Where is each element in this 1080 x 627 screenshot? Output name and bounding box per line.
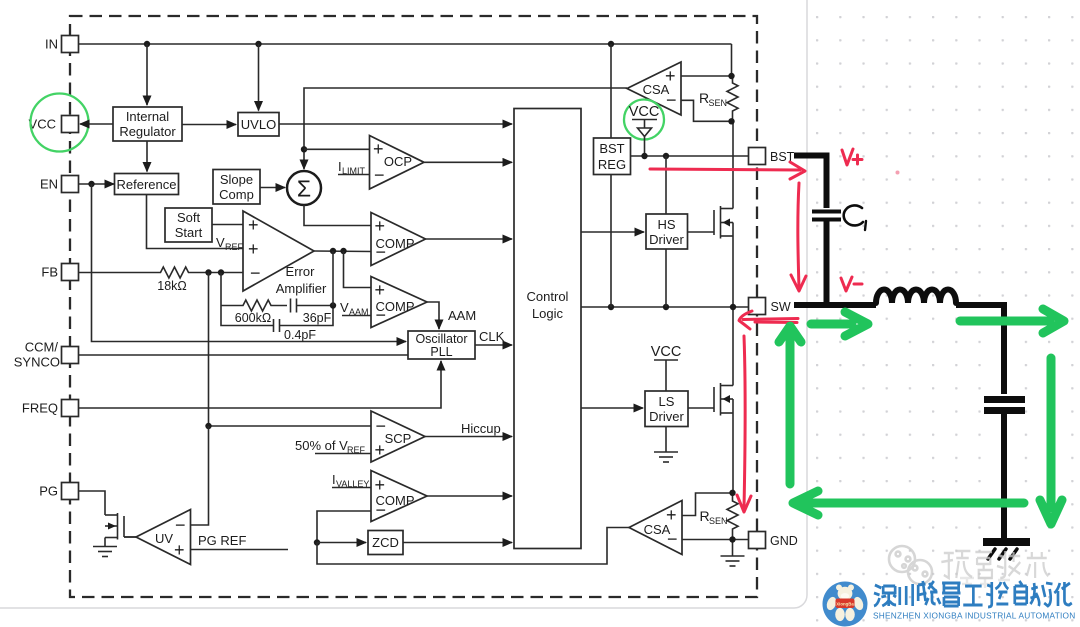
- resistor 18k: [157, 267, 192, 293]
- svg-text:XiongBa: XiongBa: [836, 602, 854, 607]
- ground below RSEN bottom: [721, 540, 745, 566]
- pin GND: [749, 532, 798, 549]
- wire Control Logic to HS Driver: [581, 231, 644, 233]
- wire COMP3 to Control Logic: [427, 495, 512, 497]
- wire Reference VREF to EA: [147, 195, 244, 249]
- pin EN: [40, 176, 79, 193]
- red arrow BST charge path: [650, 162, 805, 179]
- svg-text:18kΩ: 18kΩ: [157, 279, 187, 293]
- svg-text:COMP: COMP: [376, 236, 415, 251]
- wire BST line to HS Driver top: [665, 156, 667, 214]
- svg-text:VCC: VCC: [29, 117, 56, 132]
- svg-text:ZCD: ZCD: [372, 535, 399, 550]
- wire BST REG bottom to SW rail: [610, 175, 612, 308]
- pin VCC: [29, 116, 79, 133]
- svg-text:FB: FB: [41, 265, 58, 280]
- block Control Logic: [514, 109, 581, 549]
- junction dots EA output: [330, 248, 336, 254]
- wire IN rail down to BST REG: [610, 44, 612, 138]
- comparator COMP (AAM): [371, 277, 427, 328]
- summation node sigma: [287, 171, 321, 205]
- wire HS Driver bottom to SW rail: [665, 249, 667, 307]
- wire Internal Regulator to UVLO: [182, 124, 236, 126]
- transistor PG PMOS: [105, 513, 136, 540]
- green arrow left bottom: [793, 491, 1024, 515]
- wire PG pin to PMOS: [79, 491, 106, 515]
- block Oscillator PLL: [408, 331, 475, 359]
- wire inductor to output node: [956, 305, 1004, 394]
- junction dots BST line: [641, 153, 647, 159]
- svg-text:OCP: OCP: [384, 154, 412, 169]
- wire Control Logic to LS Driver: [581, 407, 643, 409]
- wire ZCD to Control Logic: [403, 542, 512, 544]
- block HS Driver: [646, 214, 688, 249]
- svg-text:VCC: VCC: [651, 344, 682, 360]
- svg-text:Amplifier: Amplifier: [276, 281, 327, 296]
- wire UVLO to Control Logic: [279, 123, 512, 125]
- wire Internal Regulator to VCC pin: [80, 123, 113, 125]
- block LS Driver: [645, 391, 688, 427]
- pin CCM/SYNCO: [14, 340, 79, 370]
- svg-text:SCP: SCP: [385, 431, 412, 446]
- svg-text:LS: LS: [659, 394, 675, 409]
- svg-text:PLL: PLL: [430, 345, 452, 359]
- junction dots SW rail: [608, 304, 614, 310]
- wire EA output to COMP1 -: [314, 250, 371, 253]
- comparator COMP (valley): [371, 471, 427, 522]
- wire CSA bottom output loop: [317, 528, 629, 565]
- label V+ (red): [842, 149, 862, 165]
- svg-text:CSA: CSA: [644, 522, 671, 537]
- capacitor 0.4pF branch: [221, 306, 333, 343]
- capacitor output: [984, 400, 1025, 411]
- op-amp UV (points left): [136, 510, 191, 565]
- svg-text:Driver: Driver: [649, 409, 684, 424]
- svg-text:Σ: Σ: [297, 176, 311, 202]
- svg-text:CLK: CLK: [479, 329, 505, 344]
- wire SW external to inductor: [794, 302, 876, 308]
- wire resistor to EA: [192, 272, 243, 274]
- wire Internal Regulator to Reference: [146, 141, 148, 172]
- svg-text:Regulator: Regulator: [119, 124, 176, 139]
- char dong: [1030, 583, 1052, 606]
- watermark ghost second row: [960, 578, 1010, 588]
- svg-text:+: +: [248, 215, 259, 235]
- block UVLO: [238, 113, 279, 137]
- wire IN rail: [79, 43, 732, 45]
- junction dots FB node: [205, 269, 211, 275]
- svg-text:SHENZHEN XIONGBA INDUSTRIAL AU: SHENZHEN XIONGBA INDUSTRIAL AUTOMATION: [873, 611, 1076, 621]
- svg-text:AAM: AAM: [448, 308, 476, 323]
- comparator OCP: [370, 136, 425, 190]
- transistor LS MOSFET: [688, 307, 733, 493]
- svg-text:UVLO: UVLO: [241, 117, 276, 132]
- svg-text:50% of V: 50% of V: [295, 438, 348, 453]
- ground below PG PMOS: [93, 538, 117, 557]
- ground external: [983, 542, 1030, 559]
- svg-text:+: +: [375, 216, 386, 236]
- svg-text:REG: REG: [598, 157, 626, 172]
- pin BST: [749, 148, 795, 165]
- resistor RSEN top: [699, 76, 738, 120]
- label C1 (handwritten): [844, 205, 866, 230]
- red arrow SW into IC (left): [739, 311, 798, 329]
- svg-text:CCM/: CCM/: [25, 340, 59, 355]
- block BST REG: [594, 138, 631, 175]
- wire node to ZCD: [317, 542, 366, 544]
- comparator SCP: [371, 411, 425, 462]
- wire CSA bottom - input to GND pin: [682, 539, 749, 541]
- transistor HS MOSFET: [688, 122, 734, 307]
- svg-text:Error: Error: [286, 264, 316, 279]
- block Soft Start: [165, 208, 212, 242]
- label VREF: [216, 235, 244, 252]
- svg-text:COMP: COMP: [376, 299, 415, 314]
- junction dot ZCD node: [314, 539, 320, 545]
- wire COMP3 - loop to ZCD node: [317, 511, 371, 543]
- wire OCP to Control Logic: [424, 161, 512, 163]
- green arrow down right side: [1040, 358, 1062, 524]
- svg-text:COMP: COMP: [376, 493, 415, 508]
- watermark blob icon: [889, 546, 915, 572]
- wire BST REG to BST pin: [631, 155, 749, 157]
- svg-text:EN: EN: [40, 177, 58, 192]
- svg-text:0.4pF: 0.4pF: [284, 328, 316, 342]
- char kong: [986, 582, 1008, 607]
- wire CSA+ to RSEN top: [681, 75, 732, 77]
- block Slope Comp: [213, 170, 260, 205]
- wire FB branch to compensation network: [220, 273, 222, 306]
- junction dot OCP branch: [301, 146, 307, 152]
- wire FB branch down to SCP - and UV -: [209, 273, 372, 427]
- svg-text:−: −: [175, 515, 186, 535]
- wire EN to Reference: [79, 183, 115, 185]
- green arrow up at SW: [779, 326, 801, 484]
- wire FREQ to Oscillator PLL: [79, 361, 442, 408]
- logo Chinese text (drawn strokes): [874, 581, 1072, 607]
- wire Slope Comp to sigma: [260, 187, 285, 189]
- dotted grid background (right panel): [806, 0, 1080, 627]
- wire CSA bottom + input: [682, 493, 733, 516]
- svg-text:SYNCO: SYNCO: [14, 355, 60, 370]
- wire CSA top output to sigma and OCP: [304, 88, 627, 169]
- green arrow right at SW: [811, 312, 868, 336]
- wire EA output to COMP2 +: [344, 251, 372, 288]
- svg-text:600kΩ: 600kΩ: [235, 311, 271, 325]
- svg-text:Start: Start: [175, 225, 203, 240]
- label 50% of VREF with stub: [295, 438, 371, 455]
- wire Soft Start to EA: [212, 224, 243, 226]
- wire IN to Internal Regulator: [146, 44, 148, 105]
- char zhen (chuan): [900, 584, 913, 606]
- char shen: [874, 585, 896, 606]
- svg-text:SW: SW: [771, 300, 791, 314]
- watermark character xin: [1027, 552, 1049, 578]
- wire SCP to Control Logic (Hiccup): [425, 436, 512, 438]
- watermark character ge: [975, 552, 992, 578]
- svg-text:IN: IN: [45, 37, 58, 52]
- wire IN rail to RSEN top: [731, 44, 733, 76]
- op-amp CSA top (points left): [627, 62, 681, 115]
- inductor L: [876, 290, 956, 304]
- char xiong: [918, 581, 940, 605]
- svg-text:BST: BST: [599, 141, 624, 156]
- junction dot RSEN bottom: [728, 118, 734, 124]
- svg-text:Internal: Internal: [126, 109, 169, 124]
- svg-text:+: +: [248, 239, 259, 259]
- circled VCC supply (top): [624, 100, 664, 157]
- wire CCM/SYNCO to Oscillator PLL: [79, 354, 409, 356]
- svg-text:UV: UV: [155, 531, 173, 546]
- block Internal Regulator: [113, 107, 182, 141]
- svg-text:HS: HS: [657, 217, 675, 232]
- VCC label above LS Driver: [651, 344, 682, 391]
- label IVALLEY with stub: [332, 472, 371, 489]
- wire BST external: [794, 156, 827, 209]
- watermark character shou: [997, 551, 1020, 578]
- wire output cap to ground: [1001, 414, 1007, 538]
- char zi: [1015, 581, 1027, 604]
- svg-text:CSA: CSA: [643, 82, 670, 97]
- stray red speck: [896, 171, 900, 175]
- wire COMP1 to Control Logic: [426, 238, 513, 240]
- junction dot RSEN top: [728, 73, 734, 79]
- svg-text:SEN: SEN: [709, 516, 728, 526]
- svg-text:+: +: [174, 540, 185, 560]
- label V- (red): [841, 277, 862, 291]
- label ILIMIT with stub: [338, 159, 370, 176]
- svg-text:Soft: Soft: [177, 210, 201, 225]
- wire IN to UVLO: [258, 44, 260, 111]
- resistor RSEN bottom: [700, 493, 739, 540]
- svg-text:Control: Control: [527, 289, 569, 304]
- wire UV output to PMOS gate: [124, 536, 136, 538]
- svg-text:+: +: [375, 475, 386, 495]
- wire COMP2 to Oscillator PLL (AAM): [427, 302, 439, 329]
- svg-text:Slope: Slope: [220, 172, 253, 187]
- schematic white card: [0, 0, 807, 608]
- wire EA output down to compensation: [332, 251, 334, 306]
- svg-text:36pF: 36pF: [303, 311, 332, 325]
- wire Oscillator CLK to Control Logic: [475, 344, 512, 346]
- svg-text:REF: REF: [225, 242, 244, 252]
- red arrow down along RSEN: [737, 336, 751, 512]
- svg-text:Driver: Driver: [649, 232, 684, 247]
- svg-text:Comp: Comp: [219, 187, 254, 202]
- block Reference: [115, 174, 179, 195]
- char gong: [963, 586, 982, 605]
- watermark character xuan: [941, 551, 972, 578]
- compensation network 600k + 36pF: [221, 299, 333, 326]
- junction dot EN branch: [88, 181, 94, 187]
- logo badge circle: [823, 582, 868, 627]
- pin PG: [39, 483, 78, 500]
- IC dashed border: [70, 16, 757, 597]
- svg-text:Logic: Logic: [532, 306, 564, 321]
- char hua: [1054, 582, 1071, 606]
- label VAAM with stub: [340, 300, 371, 317]
- svg-text:V: V: [340, 300, 349, 315]
- wire CSA- to RSEN bottom: [681, 100, 732, 121]
- wire to OCP + input: [304, 148, 370, 150]
- svg-text:Reference: Reference: [117, 177, 177, 192]
- pin FB: [41, 264, 78, 281]
- svg-text:GND: GND: [770, 534, 798, 548]
- svg-text:PG REF: PG REF: [198, 533, 246, 548]
- pin SW: [749, 298, 791, 315]
- svg-text:PG: PG: [39, 484, 58, 499]
- svg-text:+: +: [375, 280, 386, 300]
- green circle around VCC pin: [31, 94, 89, 152]
- green arrow right after inductor: [960, 309, 1064, 333]
- char ba: [942, 583, 960, 606]
- svg-text:−: −: [250, 263, 261, 283]
- junction dot: [729, 490, 735, 496]
- label PG REF: [191, 533, 289, 550]
- op-amp Error Amplifier: [243, 211, 327, 296]
- wire FB to EA - input: [79, 272, 158, 274]
- wire EN branch to Oscillator PLL: [92, 184, 407, 342]
- svg-text:Hiccup: Hiccup: [461, 421, 501, 436]
- wire sigma to COMP1 +: [304, 205, 371, 226]
- capacitor C1: [812, 212, 841, 220]
- red arrow down along C1: [791, 183, 806, 291]
- svg-text:VCC: VCC: [629, 104, 660, 120]
- wire SW rail: [581, 306, 749, 308]
- svg-text:SEN: SEN: [709, 98, 728, 108]
- bear mascot: [836, 585, 842, 591]
- op-amp CSA bottom (points left): [629, 501, 682, 555]
- block ZCD: [368, 531, 403, 555]
- wire C1 to SW rail: [824, 222, 830, 306]
- pin FREQ: [22, 400, 79, 417]
- junction dot RSEN bottom GND: [729, 536, 735, 542]
- ground below LS Driver: [654, 427, 678, 463]
- svg-text:+: +: [373, 139, 384, 159]
- svg-text:Oscillator: Oscillator: [415, 332, 467, 346]
- svg-text:+: +: [375, 440, 386, 460]
- comparator COMP (PWM): [371, 213, 426, 266]
- pin IN: [45, 36, 79, 53]
- junction dots IN rail: [144, 41, 150, 47]
- svg-text:FREQ: FREQ: [22, 401, 58, 416]
